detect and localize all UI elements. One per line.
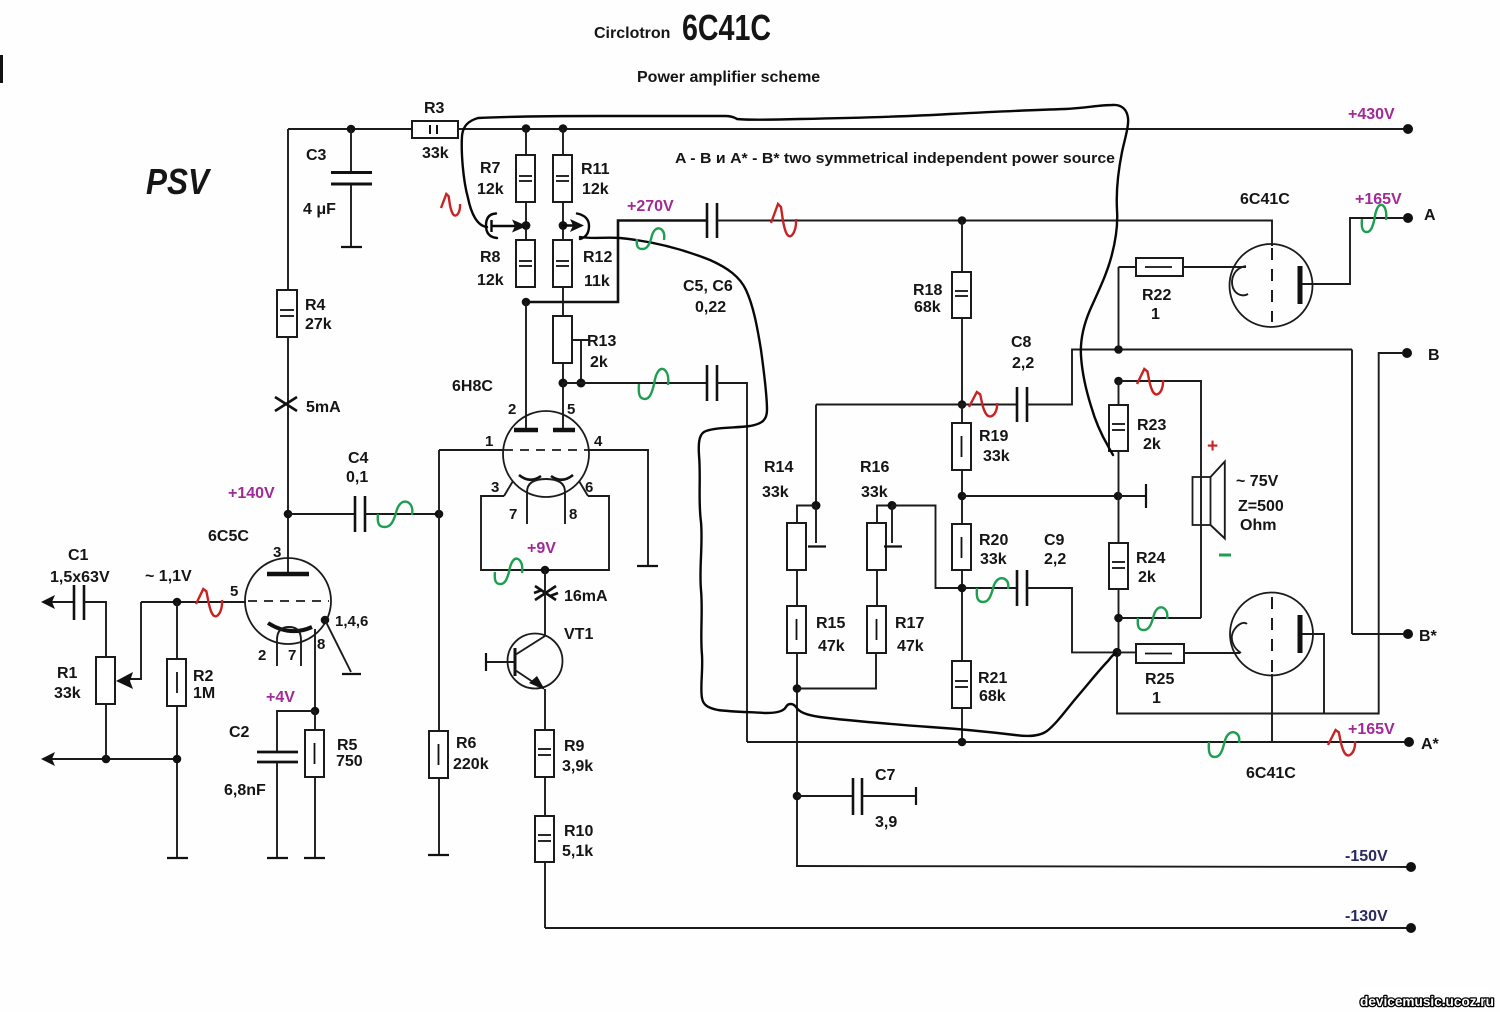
svg-text:R14: R14 (764, 459, 793, 476)
capacitor C1 (73, 585, 76, 620)
wire left vertical from +430V to R4 (287, 129, 289, 290)
node C7 tap (793, 792, 802, 801)
emitter line VT1 (515, 670, 542, 688)
svg-text:R24: R24 (1136, 550, 1165, 567)
wire R7-R8 (525, 202, 527, 240)
capacitor C2 (257, 751, 298, 754)
wire -130V rail (545, 927, 1407, 929)
svg-text:B*: B* (1419, 628, 1438, 645)
grid dashed lower (1271, 597, 1273, 673)
wire R14 top hook (797, 506, 816, 524)
svg-text:+9V: +9V (527, 540, 556, 557)
svg-text:-150V: -150V (1345, 848, 1388, 865)
wire R19 top (961, 405, 963, 424)
trimmer R14 (787, 523, 806, 570)
cathode arc right 6H8C (551, 475, 573, 480)
resistor R19 (952, 423, 971, 470)
resistor R20 (952, 524, 971, 570)
svg-text:2k: 2k (590, 354, 608, 371)
resistor R15 (787, 606, 806, 653)
pin3 lead (504, 481, 513, 496)
anode bar upper (1298, 266, 1303, 304)
cathode hook lower (1232, 623, 1247, 653)
squiggle green A* rail (1209, 732, 1240, 757)
svg-text:A - B и A* - B* two symmetrica: A - B и A* - B* two symmetrical independ… (675, 150, 1115, 167)
node R19 bottom (958, 492, 967, 501)
base bar VT1 (514, 648, 517, 676)
svg-text:0,1: 0,1 (346, 469, 368, 486)
wire R12 to R13 (562, 287, 564, 316)
capacitor C8 (1016, 387, 1019, 422)
wire R18 bottom (961, 318, 963, 405)
wire R11-R12 (562, 202, 564, 240)
wire to VT1 collector (544, 570, 546, 636)
wire R22 drop (1118, 267, 1120, 350)
node R25 (1113, 648, 1122, 657)
svg-text:33k: 33k (762, 484, 789, 501)
svg-text:33k: 33k (861, 484, 888, 501)
svg-text:4 μF: 4 μF (303, 201, 336, 218)
svg-text:Power amplifier scheme: Power amplifier scheme (637, 69, 820, 86)
wire R13 bottom (562, 363, 564, 383)
svg-text:4: 4 (594, 433, 603, 450)
node R2 top (173, 598, 182, 607)
svg-text:Ohm: Ohm (1240, 517, 1276, 534)
node B terminal (1402, 348, 1412, 358)
capacitor C7 (797, 795, 852, 797)
freeform curve B (580, 237, 1116, 736)
node junction C3 (347, 125, 356, 134)
resistor R6 (429, 731, 448, 778)
cathode hook upper (1232, 266, 1248, 295)
grid dashed upper (1271, 248, 1273, 322)
resistor R9 (535, 730, 554, 777)
svg-text:~ 75V: ~ 75V (1236, 473, 1279, 490)
node R20 bottom (958, 584, 967, 593)
svg-text:8: 8 (569, 506, 577, 523)
node cathode common (541, 566, 550, 575)
anode bar left 6H8C (514, 428, 538, 433)
svg-text:R3: R3 (424, 100, 445, 117)
svg-text:VT1: VT1 (564, 626, 593, 643)
svg-text:PSV: PSV (146, 161, 212, 202)
squiggle green grid2 (639, 369, 669, 399)
wire R17 link (797, 653, 876, 689)
svg-text:R4: R4 (305, 297, 326, 314)
wire R8 bottom to +270V riser (526, 221, 708, 303)
node +4V (311, 707, 320, 716)
svg-text:6C41C: 6C41C (1246, 765, 1296, 782)
svg-text:R23: R23 (1137, 417, 1166, 434)
squiggle green +165V A (1362, 205, 1386, 232)
wire R2 bottom to ground stub (176, 706, 178, 858)
svg-text:12k: 12k (582, 181, 609, 198)
edge artifact (0, 55, 3, 83)
squiggle red C5 (771, 204, 796, 236)
resistor R17 (867, 606, 886, 653)
svg-text:33k: 33k (980, 551, 1007, 568)
svg-text:C4: C4 (348, 450, 369, 467)
svg-text:+165V: +165V (1348, 721, 1395, 738)
wiper R14 (815, 506, 817, 544)
svg-text:33k: 33k (54, 685, 81, 702)
wire pin2 (525, 302, 527, 428)
wire R23 top (1118, 381, 1120, 405)
resistor R3 (412, 121, 458, 138)
wire grid1 left (439, 449, 503, 451)
wire grid2 bus to C6 (563, 382, 708, 384)
svg-text:R21: R21 (978, 670, 1007, 687)
capacitor C9 (1016, 570, 1019, 606)
freeform curve A (462, 105, 1128, 455)
wire to C2 (277, 711, 315, 751)
svg-text:11k: 11k (584, 273, 610, 290)
resistor R12 (553, 240, 572, 287)
svg-text:C5, C6: C5, C6 (683, 278, 733, 295)
svg-text:R2: R2 (193, 668, 214, 685)
wire R10 bottom to -130V (544, 862, 546, 928)
svg-text:3,9: 3,9 (875, 814, 897, 831)
svg-text:+4V: +4V (266, 689, 295, 706)
svg-text:2k: 2k (1143, 436, 1161, 453)
wire R23 bottom (1118, 451, 1120, 543)
wire -150V rail (796, 866, 1407, 867)
svg-text:R12: R12 (583, 249, 612, 266)
heater legs 6H8C (526, 497, 528, 524)
svg-text:1: 1 (1152, 690, 1161, 707)
resistor R7 (516, 155, 535, 202)
svg-text:7: 7 (288, 647, 296, 664)
node R18 bottom (958, 400, 967, 409)
svg-text:2k: 2k (1138, 569, 1156, 586)
wire R7 top (525, 129, 527, 155)
svg-text:47k: 47k (897, 638, 924, 655)
wire C4 to grid node (365, 513, 439, 515)
resistor R22 (1136, 258, 1183, 276)
node R8 bottom (522, 298, 531, 307)
node R21 bottom (958, 738, 967, 747)
squiggle red R18 (969, 392, 997, 416)
capacitor C3 (331, 171, 372, 174)
node grid2 a (559, 379, 568, 388)
wire R4 to +140V node (287, 337, 289, 514)
wiper R16 (891, 506, 893, 544)
wire R25 to cathode A* (1117, 651, 1136, 653)
svg-text:2: 2 (258, 647, 266, 664)
svg-text:7: 7 (509, 506, 517, 523)
squiggle green R24 (1138, 607, 1168, 630)
heater arc 6H8C (527, 479, 565, 497)
squiggle red R7 (441, 194, 460, 216)
node cathode 1,4,6 (321, 616, 330, 625)
svg-text:C9: C9 (1044, 532, 1065, 549)
svg-text:68k: 68k (979, 688, 1006, 705)
node R11 top (559, 124, 568, 133)
wire node to R14 riser and C8 (816, 404, 1016, 406)
wire C5 to grid A (717, 221, 1272, 247)
svg-text:R17: R17 (895, 615, 924, 632)
svg-text:devicemusic.ucoz.ru: devicemusic.ucoz.ru (1360, 994, 1494, 1009)
squiggle red R23 (1137, 369, 1163, 394)
heater loop 6C5C (277, 627, 301, 666)
collector line VT1 (515, 636, 545, 655)
svg-text:3,9k: 3,9k (562, 758, 593, 775)
pin6 lead (579, 481, 588, 496)
node A terminal (1403, 213, 1413, 223)
svg-text:C8: C8 (1011, 334, 1032, 351)
wire 1,4,6 stub (325, 620, 351, 672)
transistor VT1 (508, 634, 563, 689)
trimmer pointer right (577, 214, 589, 240)
svg-text:5: 5 (567, 401, 575, 418)
svg-text:C3: C3 (306, 147, 327, 164)
node +430V terminal (1403, 124, 1413, 134)
wire R16-R17 (876, 570, 878, 606)
squiggle green +9V (495, 559, 523, 584)
resistor R21 (952, 661, 971, 708)
node grid1 6H8C (435, 510, 444, 519)
svg-text:3: 3 (491, 479, 499, 496)
svg-text:+430V: +430V (1348, 106, 1395, 123)
svg-text:R16: R16 (860, 459, 889, 476)
wire R18 feed (961, 221, 963, 273)
wire C6 down to A* rail (717, 383, 747, 742)
wire R20 bottom (961, 570, 963, 661)
resistor R10 (535, 816, 554, 862)
wire A* +165V rail (747, 741, 1405, 743)
anode bar lower (1298, 615, 1303, 653)
svg-text:33k: 33k (983, 448, 1010, 465)
svg-text:47k: 47k (818, 638, 845, 655)
svg-text:R6: R6 (456, 735, 477, 752)
wire C2 bottom (276, 763, 278, 858)
node R24 bottom (1114, 614, 1123, 623)
svg-text:6C41C: 6C41C (1240, 191, 1290, 208)
node R1 bottom (102, 755, 111, 764)
tube 6H8C envelope (503, 411, 589, 497)
cathode frame box 6H8C (481, 496, 609, 570)
svg-text:750: 750 (336, 753, 363, 770)
cathode arc left 6H8C (519, 475, 541, 480)
wire R23 node to speaker (1119, 381, 1202, 618)
squiggle green +270 (637, 228, 665, 249)
capacitor C4 (354, 496, 357, 532)
wire R11 top (562, 129, 564, 155)
svg-text:5,1k: 5,1k (562, 843, 593, 860)
wire R5 top (314, 711, 316, 730)
label minus green (1219, 554, 1231, 557)
emitter wire (544, 689, 546, 730)
svg-text:8: 8 (317, 636, 325, 653)
wire B riser (1117, 353, 1404, 714)
svg-text:R25: R25 (1145, 671, 1174, 688)
svg-text:1M: 1M (193, 685, 215, 702)
svg-text:R22: R22 (1142, 287, 1171, 304)
wire grid4 right to stub (589, 450, 648, 566)
svg-text:R7: R7 (480, 160, 501, 177)
resistor R24 (1109, 543, 1128, 589)
svg-text:6H8C: 6H8C (452, 378, 493, 395)
wire 6C5C anode feed (287, 514, 289, 574)
svg-text:R18: R18 (913, 282, 942, 299)
svg-text:R8: R8 (480, 249, 501, 266)
resistor R2 (167, 659, 186, 706)
resistor R13 (553, 316, 572, 363)
wire C8 to node (1027, 350, 1352, 405)
input arrow upper (46, 601, 74, 603)
capacitor C5 (706, 203, 709, 238)
svg-text:2: 2 (508, 401, 516, 418)
svg-text:6C5C: 6C5C (208, 528, 249, 545)
svg-text:2,2: 2,2 (1012, 355, 1034, 372)
svg-text:+: + (1207, 436, 1218, 457)
wire R15 bottom to -150V (796, 653, 798, 866)
trimmer R16 (867, 523, 886, 570)
wire cathode pin8 (314, 629, 316, 711)
resistor R23 (1109, 405, 1128, 451)
svg-text:6: 6 (585, 479, 593, 496)
node -130V terminal (1406, 923, 1416, 933)
grid dashed 6C5C (248, 600, 329, 602)
node R15 bottom (793, 684, 802, 693)
wire R21 bottom (961, 708, 963, 742)
svg-text:1: 1 (1151, 306, 1160, 323)
svg-text:R9: R9 (564, 738, 585, 755)
wire B* riser (1351, 350, 1353, 635)
node trim right (559, 221, 568, 230)
speaker Z=500 (1193, 477, 1211, 525)
node R16 (888, 501, 897, 510)
resistor R8 (516, 240, 535, 287)
node R14 (812, 501, 821, 510)
trimmer pointer left (486, 214, 497, 239)
wire R13 tap (572, 339, 590, 341)
svg-text:0,22: 0,22 (695, 299, 726, 316)
wire R6 bottom (438, 778, 440, 855)
node B* terminal (1403, 629, 1413, 639)
wire B* link (1352, 633, 1404, 635)
potentiometer R1 (96, 657, 115, 704)
wire R20 node to C9 (962, 587, 1016, 589)
node R18 top (958, 216, 967, 225)
input arrow lower (46, 758, 177, 760)
anode bar 6C5C (267, 572, 309, 577)
squiggle green C9 (977, 578, 1009, 602)
tube 6C5C envelope (245, 558, 331, 644)
svg-text:-130V: -130V (1345, 908, 1388, 925)
svg-text:6,8nF: 6,8nF (224, 782, 266, 799)
svg-text:R15: R15 (816, 615, 845, 632)
wire anode A to +165V (1302, 218, 1404, 284)
grid dashed 6H8C (504, 449, 589, 451)
wire R14-R15 (796, 570, 798, 606)
wiper R1 (128, 602, 141, 679)
wire pin5 (562, 383, 564, 428)
wire R16 hook (877, 506, 892, 524)
wire grid bus (141, 601, 246, 603)
svg-text:5: 5 (230, 583, 238, 600)
wire grid lower to A* rail (1271, 674, 1273, 742)
node trim left (522, 221, 531, 230)
wire R22 to cathode A (1183, 266, 1246, 268)
svg-text:16mA: 16mA (564, 588, 608, 605)
svg-text:1,5x63V: 1,5x63V (50, 569, 110, 586)
wire C3 drop (350, 129, 352, 171)
svg-text:1,4,6: 1,4,6 (335, 613, 368, 630)
wire C1 to R1 (84, 602, 106, 657)
svg-text:33k: 33k (422, 145, 449, 162)
tube 6C41C upper envelope (1230, 244, 1313, 327)
svg-text:6C41C: 6C41C (682, 7, 771, 48)
svg-text:A*: A* (1421, 736, 1440, 753)
wire C9 to R25 node (1027, 588, 1117, 652)
svg-text:5mA: 5mA (306, 399, 341, 416)
node A* terminal (1404, 737, 1414, 747)
cathode arc 6C5C (268, 623, 312, 631)
node R22 (1114, 345, 1123, 354)
svg-text:R11: R11 (581, 161, 610, 178)
wire +430V rail (288, 128, 1408, 130)
capacitor C6 (706, 365, 709, 401)
svg-text:68k: 68k (914, 299, 941, 316)
svg-text:+140V: +140V (228, 485, 275, 502)
svg-text:220k: 220k (453, 756, 489, 773)
svg-text:Circlotron: Circlotron (594, 25, 670, 42)
resistor R18 (952, 272, 971, 318)
node grid2 b (577, 379, 586, 388)
svg-text:12k: 12k (477, 272, 504, 289)
resistor R25 (1136, 644, 1184, 663)
wire R1 bottom (105, 704, 107, 759)
svg-text:+270V: +270V (627, 198, 674, 215)
wire R14 riser (815, 405, 817, 506)
node R7 top (522, 124, 531, 133)
wire R16 node to R20 node (892, 506, 962, 589)
wire R2 top (176, 602, 178, 659)
svg-text:C7: C7 (875, 767, 896, 784)
svg-text:R10: R10 (564, 823, 593, 840)
svg-text:A: A (1424, 207, 1436, 224)
svg-text:R5: R5 (337, 737, 358, 754)
mark 5mA cross (275, 397, 297, 411)
wire R9-R10 (544, 777, 546, 816)
svg-text:1: 1 (485, 433, 493, 450)
wire to C4 (288, 513, 355, 515)
wire R19 bottom (961, 470, 963, 524)
squiggle green C4 (378, 502, 413, 527)
svg-text:C1: C1 (68, 547, 89, 564)
node R23 bottom (1114, 492, 1123, 501)
squiggle red 6C5C grid (196, 589, 222, 616)
wire R6 riser (438, 514, 440, 731)
wire anode lower (1302, 634, 1324, 714)
base wire VT1 (486, 661, 515, 663)
svg-text:Z=500: Z=500 (1238, 498, 1284, 515)
svg-text:27k: 27k (305, 316, 332, 333)
resistor R11 (553, 155, 572, 202)
svg-text:C2: C2 (229, 724, 250, 741)
resistor R4 (277, 290, 297, 337)
svg-text:~ 1,1V: ~ 1,1V (145, 568, 192, 585)
svg-text:R1: R1 (57, 665, 78, 682)
svg-text:R19: R19 (979, 428, 1008, 445)
grid stub B (1118, 495, 1146, 497)
wire R24 node to speaker bottom (1119, 617, 1202, 619)
watermark (1358, 986, 1488, 1008)
svg-text:B: B (1428, 347, 1440, 364)
wire grid bus B (962, 495, 1118, 497)
node R23 top (1114, 377, 1123, 386)
